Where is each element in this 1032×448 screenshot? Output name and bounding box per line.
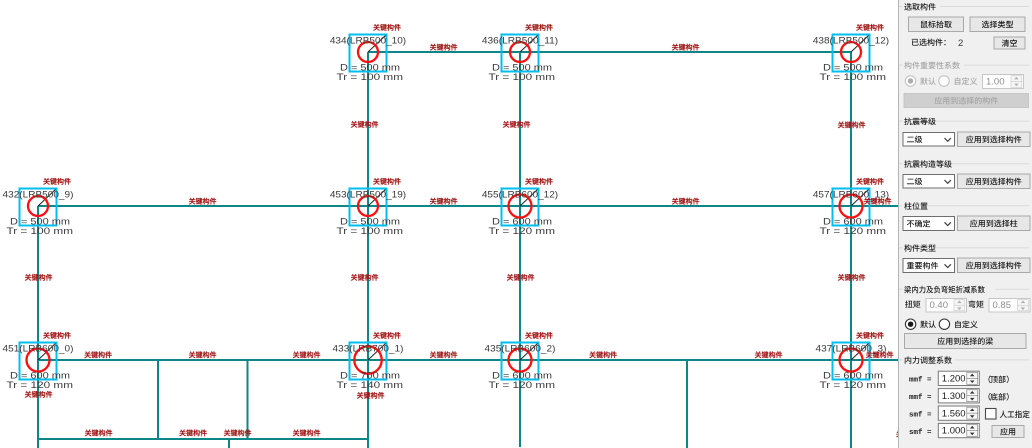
svg-text:432(LRB500_9): 432(LRB500_9) [3,189,74,199]
dropdown member type value [903,259,955,273]
beam label row3 seg 851-898 [866,351,893,358]
button apply to selected beams [905,334,1027,349]
clipped key-member tag at canvas right edge [896,430,923,437]
svg-text:438(LRB500_12): 438(LRB500_12) [813,35,889,45]
column label C rows1-2 [503,121,530,128]
column line C (x=520) [519,52,521,447]
key-member tag above 434 [373,24,400,31]
wall stud x=158 [157,360,159,439]
svg-text:Tr = 140 mm: Tr = 140 mm [337,380,404,390]
column line D (x=851) [850,52,852,448]
right control panel background [898,0,1032,448]
isolation bearing 434(LRB500_10) [330,24,406,82]
svg-text:Tr = 100 mm: Tr = 100 mm [337,226,404,236]
beam label row3 seg 158-247 [189,351,216,358]
beam label bottom seg 229-247 [224,429,251,436]
group title select members [904,3,935,10]
isolation bearing 455(LRB600_12) [482,178,558,236]
svg-text:1.00: 1.00 [986,77,1005,88]
spin edit moment factor [989,299,1030,313]
beam label bottom seg 158-229 [179,429,206,436]
svg-text:435(LRB600_2): 435(LRB600_2) [485,343,556,353]
dropdown detailing grade value [903,175,955,189]
button apply detailing grade [958,174,1031,189]
isolation bearing 457(LRB600_13) [813,178,889,236]
isolation bearing 436(LRB500_11) [482,24,558,82]
column label A rows2-3 [25,274,52,281]
group title seismic detailing grade [904,160,952,168]
svg-text:1.560: 1.560 [942,408,966,419]
wall stud x=687 [686,360,688,448]
column label C rows2-3 [507,274,534,281]
label moment [969,300,984,307]
isolation bearing 438(LRB500_12) [813,24,889,82]
svg-text:Tr = 120 mm: Tr = 120 mm [820,380,887,390]
radio custom (disabled) [939,76,977,86]
key-member tag above 457 [856,178,883,185]
column label B rows2-3 [351,274,378,281]
key-member tag above 432 [43,178,70,185]
beam row2 (432-453-455-457) [38,205,898,207]
svg-text:smf =: smf = [909,411,932,419]
label torsion [905,300,920,307]
svg-text:Tr = 120 mm: Tr = 120 mm [7,380,74,390]
svg-text:Tr = 120 mm: Tr = 120 mm [820,226,887,236]
column label D rows2-3 [838,274,865,281]
isolation bearing 453(LRB500_19) [330,178,406,236]
button apply to selected columns [958,216,1031,231]
beam label row3 seg 520-687 [589,351,616,358]
svg-text:1.200: 1.200 [942,374,966,385]
key-member tag above 451 [43,332,70,339]
spin edit row mmf bottom [938,389,979,403]
column label B row3-bottom [357,392,384,399]
column label B rows1-2 [351,121,378,128]
spin edit row mmf top [938,371,979,385]
beam label row3 seg 368-520 [430,351,457,358]
beam label row2 seg 520-851 [672,198,699,205]
group title importance factor (disabled) [904,62,960,69]
beam label bottom seg 247-368 [293,429,320,436]
svg-text:Tr = 120 mm: Tr = 120 mm [489,380,556,390]
spin edit importance factor value [983,75,1024,89]
button apply member type [958,258,1031,273]
key-member tag above 436 [525,24,552,31]
svg-text:1.300: 1.300 [942,391,966,402]
group title member type [904,244,935,251]
button apply [992,426,1024,438]
wall stub x=229 below bottom beam [228,439,230,448]
isolation bearing 432(LRB500_9) [3,178,74,236]
beam label row1 seg 520-851 [672,44,699,51]
group title force adjust factors [905,356,952,363]
key-member tag above 453 [373,178,400,185]
radio default (disabled) [905,76,935,86]
spin edit row smf [938,406,979,420]
panel left border [898,0,900,448]
svg-text:1.000: 1.000 [942,426,966,437]
dropdown column position value [903,217,955,231]
beam row1 (434-436-438) [368,51,851,53]
radio default [905,319,935,329]
beam label row3 seg 687-851 [755,351,782,358]
svg-text:Tr = 100 mm: Tr = 100 mm [7,226,74,236]
svg-text:434(LRB500_10): 434(LRB500_10) [330,35,406,45]
key-member tag above 435 [525,332,552,339]
svg-text:457(LRB600_13): 457(LRB600_13) [813,189,889,199]
beam row3 (451-433-435-437) [38,359,898,361]
button select type [970,17,1025,32]
svg-text:433(LRB700_1): 433(LRB700_1) [333,343,404,353]
beam label row2 seg 368-520 [430,198,457,205]
svg-text:0.40: 0.40 [930,300,949,311]
svg-text:mmf =: mmf = [909,394,932,402]
svg-text:455(LRB600_12): 455(LRB600_12) [482,189,558,199]
beam bottom [38,438,369,440]
beam label row3 seg 247-368 [293,351,320,358]
spin edit torsion factor [926,299,967,313]
key-member tag above 455 [525,178,552,185]
beam label row2 seg 38-368 [189,198,216,205]
beam label row3 seg 38-158 [84,351,111,358]
checkbox 人工指定 [986,409,1030,420]
wall stud x=247.5 [247,360,249,439]
svg-text:Tr = 100 mm: Tr = 100 mm [489,72,556,82]
svg-text:451(LRB600_0): 451(LRB600_0) [3,343,74,353]
isolation bearing 435(LRB600_2) [485,332,556,390]
svg-text:436(LRB500_11): 436(LRB500_11) [482,35,558,45]
beam label row1 seg 368-520 [430,44,457,51]
svg-text:Tr = 120 mm: Tr = 120 mm [489,226,556,236]
key-member tag above 437 [856,332,883,339]
button apply to selected members (disabled) [904,94,1029,108]
isolation bearing 433(LRB700_1) [333,332,404,390]
button mouse pick [909,17,964,32]
dropdown seismic grade value [903,133,955,147]
column line A (x=38) [37,206,39,448]
svg-text:Tr = 100 mm: Tr = 100 mm [337,72,404,82]
svg-text:2: 2 [958,38,963,49]
group title beam force reduction [904,286,985,294]
spin edit row smf2 [938,423,979,437]
group title seismic grade [904,118,936,126]
svg-text:smf =: smf = [909,429,932,437]
column line B (x=368) [367,52,369,448]
column label D rows1-2 [838,121,865,128]
button clear [994,37,1025,49]
column label A row3-bottom [25,391,52,398]
group title column position [904,202,927,210]
svg-text:Tr = 100 mm: Tr = 100 mm [820,72,887,82]
isolation bearing 437(LRB600_3) [816,332,887,390]
isolation bearing 451(LRB600_0) [3,332,74,390]
key-member tag above 438 [856,24,883,31]
radio custom [939,319,977,329]
key-member tag above 433 [373,332,400,339]
beam label row2 seg 851-898 [864,198,891,205]
svg-text:453(LRB500_19): 453(LRB500_19) [330,189,406,199]
beam label bottom seg 38-158 [85,429,112,436]
button apply seismic grade [958,132,1031,147]
label selected count [912,38,946,45]
svg-text:mmf =: mmf = [909,377,932,385]
svg-text:0.85: 0.85 [993,300,1012,311]
